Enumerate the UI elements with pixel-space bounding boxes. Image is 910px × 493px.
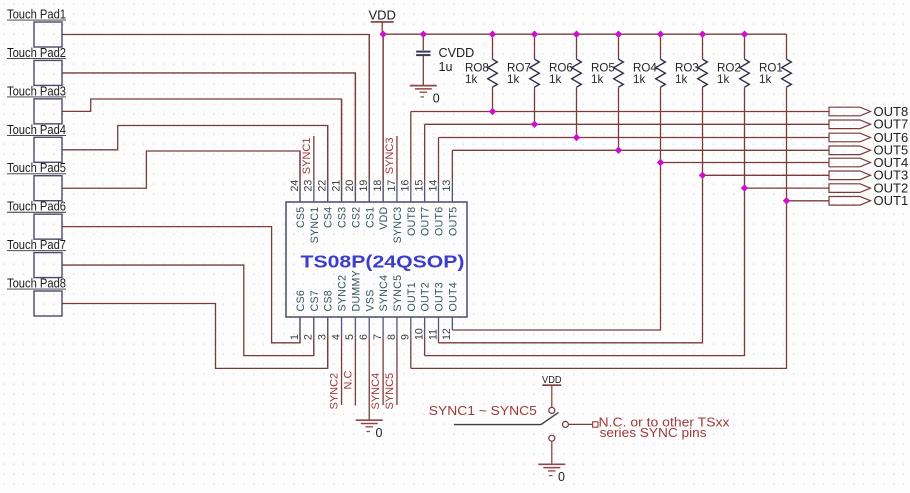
svg-text:Touch Pad5: Touch Pad5	[7, 161, 66, 175]
svg-text:series SYNC pins: series SYNC pins	[600, 426, 707, 440]
power symbol VDD (switch)	[542, 375, 562, 407]
wire OUT8 from pin16	[411, 111, 829, 113]
pin 10 OUT2	[413, 282, 431, 356]
node N.C. square terminal	[593, 422, 598, 427]
svg-text:1: 1	[289, 334, 301, 340]
touch pad TP6	[7, 200, 66, 240]
ground below CVDD	[410, 86, 440, 106]
svg-text:OUT1: OUT1	[406, 282, 418, 311]
wire OUT2 run from pin10	[425, 188, 745, 356]
svg-text:20: 20	[344, 180, 356, 192]
power symbol VDD	[368, 8, 395, 35]
pin 17 SYNC3	[386, 136, 404, 243]
junction RO8/OUT8	[489, 108, 496, 115]
svg-text:4: 4	[330, 334, 342, 340]
svg-text:SYNC3: SYNC3	[392, 207, 404, 244]
pin 5 DUMMY	[344, 270, 362, 406]
wire pad6 to CS6 pin1	[62, 227, 300, 343]
pin 7 SYNC4	[372, 275, 390, 405]
svg-text:VDD: VDD	[378, 206, 390, 229]
svg-text:0: 0	[558, 470, 565, 484]
svg-text:SYNC1 ~ SYNC5: SYNC1 ~ SYNC5	[429, 403, 537, 418]
svg-text:DUMMY: DUMMY	[350, 270, 362, 312]
svg-text:16: 16	[400, 180, 412, 192]
svg-text:SYNC5: SYNC5	[384, 373, 396, 410]
wire OUT4 run from pin12	[452, 163, 660, 331]
junction CVDD tap	[420, 31, 427, 38]
svg-text:OUT7: OUT7	[420, 207, 432, 236]
svg-text:SYNC4: SYNC4	[378, 275, 390, 312]
touch pad TP1	[7, 8, 66, 48]
junction RO1/OUT1	[783, 197, 790, 204]
wire OUT5 from pin13	[452, 149, 829, 151]
svg-text:0: 0	[375, 426, 382, 440]
port OUT8	[829, 104, 908, 119]
svg-text:1k: 1k	[675, 73, 687, 86]
ground below switch	[538, 464, 565, 484]
resistor RO4 1k	[633, 34, 665, 162]
junction VDD/pin18	[379, 31, 386, 38]
wire switch to ground	[551, 441, 553, 464]
touch pad TP5	[7, 161, 66, 201]
svg-text:Touch Pad7: Touch Pad7	[7, 238, 66, 252]
svg-text:1k: 1k	[549, 73, 561, 86]
svg-text:14: 14	[427, 180, 439, 192]
svg-text:0: 0	[433, 91, 440, 105]
wire pad4 to CS4 pin22	[62, 126, 328, 203]
svg-text:TS08P(24QSOP): TS08P(24QSOP)	[301, 252, 465, 272]
resistor RO1 1k	[759, 34, 791, 201]
svg-text:CS3: CS3	[337, 207, 349, 229]
svg-text:13: 13	[441, 180, 453, 192]
svg-text:1k: 1k	[591, 73, 603, 86]
touch pad TP7	[7, 238, 66, 278]
wire OUT1 run from pin9	[411, 201, 787, 369]
junction rail/RO7	[531, 31, 538, 38]
svg-text:OUT8: OUT8	[406, 207, 418, 236]
touch pad TP3	[7, 84, 66, 124]
pin 23 SYNC1	[303, 136, 321, 243]
op-amp U1 TS08P(24QSOP) IC body	[286, 202, 467, 317]
port OUT4	[829, 155, 908, 170]
junction RO2/OUT2	[741, 184, 748, 191]
svg-text:12: 12	[441, 328, 453, 340]
pin 16 OUT8	[400, 112, 418, 236]
svg-text:OUT3: OUT3	[434, 282, 446, 311]
wire VDD pin18 drop	[382, 34, 384, 202]
touch pad TP4	[7, 123, 66, 163]
pin 13 OUT5	[441, 150, 459, 236]
touch pad TP2	[7, 46, 66, 86]
svg-text:CS6: CS6	[295, 290, 307, 312]
junction RO5/OUT5	[615, 147, 622, 154]
svg-text:OUT2: OUT2	[420, 282, 432, 311]
wire pad3 to CS3 pin21	[62, 99, 342, 202]
resistor RO7 1k	[507, 34, 539, 124]
svg-text:SYNC2: SYNC2	[337, 275, 349, 312]
junction rail/RO5	[615, 31, 622, 38]
svg-text:SYNC4: SYNC4	[370, 373, 382, 410]
pin 22 CS4	[317, 126, 335, 229]
port OUT2	[829, 181, 908, 196]
wire pad8 to CS8 pin3	[62, 304, 328, 369]
svg-text:SYNC1: SYNC1	[309, 207, 321, 244]
svg-text:21: 21	[330, 180, 342, 192]
wire pad7 to CS7 pin2	[62, 265, 314, 356]
svg-text:15: 15	[413, 180, 425, 192]
junction RO4/OUT4	[657, 159, 664, 166]
pin 14 OUT6	[427, 138, 445, 236]
svg-text:CS7: CS7	[309, 290, 321, 312]
svg-text:7: 7	[372, 334, 384, 340]
pin 6 VSS	[358, 289, 376, 420]
svg-text:Touch Pad6: Touch Pad6	[7, 200, 66, 214]
svg-text:18: 18	[372, 180, 384, 192]
svg-text:1k: 1k	[633, 73, 645, 86]
pin 19 CS1	[358, 34, 376, 228]
svg-text:SYNC2: SYNC2	[329, 373, 341, 410]
svg-text:23: 23	[303, 180, 315, 192]
pin 18 VDD	[372, 34, 390, 230]
pin 2 CS7	[303, 290, 321, 356]
svg-text:VSS: VSS	[364, 289, 376, 311]
svg-text:CS5: CS5	[295, 207, 307, 229]
wire pad2 to CS2 pin20	[62, 73, 355, 202]
svg-text:SYNC1: SYNC1	[301, 138, 313, 175]
port OUT3	[829, 168, 908, 183]
svg-text:CS2: CS2	[350, 207, 362, 229]
pin 15 OUT7	[413, 124, 431, 236]
svg-text:N.C: N.C	[342, 371, 354, 390]
wire pad5 to CS5 pin24	[62, 151, 300, 202]
svg-text:1u: 1u	[439, 60, 453, 74]
svg-text:1k: 1k	[465, 73, 477, 86]
resistor RO6 1k	[549, 34, 581, 137]
ground below VSS pin6	[356, 420, 383, 440]
wire OUT3 run from pin11	[439, 175, 703, 342]
resistor RO5 1k	[591, 34, 623, 150]
svg-text:19: 19	[358, 180, 370, 192]
touch pad TP8	[7, 277, 66, 317]
svg-text:5: 5	[344, 334, 356, 340]
svg-text:6: 6	[358, 334, 370, 340]
switch SW1	[454, 407, 568, 441]
wire OUT7 from pin15	[425, 123, 829, 125]
port OUT5	[829, 143, 908, 158]
junction RO6/OUT6	[573, 134, 580, 141]
junction RO7/OUT7	[531, 121, 538, 128]
svg-text:3: 3	[317, 334, 329, 340]
pin 20 CS2	[344, 73, 362, 228]
pin 24 CS5	[289, 151, 307, 228]
wire VDD rail	[383, 33, 786, 35]
pin 21 CS3	[330, 99, 348, 228]
pin 3 CS8	[317, 290, 335, 368]
svg-text:VDD: VDD	[368, 8, 395, 23]
svg-text:CVDD: CVDD	[439, 46, 475, 60]
capacitor CVDD 1u	[416, 34, 474, 85]
pin 4 SYNC2	[330, 275, 348, 405]
svg-text:17: 17	[386, 180, 398, 192]
junction RO3/OUT3	[699, 172, 706, 179]
svg-text:22: 22	[317, 180, 329, 192]
port OUT1	[829, 193, 908, 208]
wire switch to N.C. note	[568, 423, 592, 425]
junction rail/RO8	[489, 31, 496, 38]
svg-text:Touch Pad3: Touch Pad3	[7, 84, 66, 98]
svg-text:CS4: CS4	[323, 207, 335, 229]
svg-text:1k: 1k	[507, 73, 519, 86]
svg-text:1k: 1k	[717, 73, 729, 86]
wire pad1 to CS1 pin19	[62, 35, 369, 203]
pin 12 OUT4	[441, 282, 459, 340]
note N.C. or to other TSxx series SYNC pins	[599, 416, 731, 441]
svg-text:9: 9	[400, 334, 412, 340]
svg-text:OUT5: OUT5	[447, 207, 459, 236]
pin 1 CS6	[289, 290, 307, 343]
resistor RO3 1k	[675, 34, 707, 175]
junction rail/RO6	[573, 31, 580, 38]
svg-text:8: 8	[386, 334, 398, 340]
svg-text:CS8: CS8	[323, 290, 335, 312]
junction rail/RO3	[699, 31, 706, 38]
resistor RO2 1k	[717, 34, 749, 188]
port OUT6	[829, 130, 908, 145]
svg-text:Touch Pad4: Touch Pad4	[7, 123, 66, 137]
svg-text:OUT6: OUT6	[434, 207, 446, 236]
svg-text:Touch Pad2: Touch Pad2	[7, 46, 66, 60]
svg-text:Touch Pad1: Touch Pad1	[7, 8, 66, 22]
svg-text:SYNC3: SYNC3	[384, 138, 396, 175]
svg-text:24: 24	[289, 180, 301, 192]
wire OUT6 from pin14	[439, 137, 830, 139]
svg-text:OUT4: OUT4	[447, 282, 459, 311]
pin 11 OUT3	[427, 282, 445, 343]
svg-text:SYNC5: SYNC5	[392, 275, 404, 312]
svg-text:OUT1: OUT1	[874, 193, 909, 208]
svg-text:2: 2	[303, 334, 315, 340]
svg-text:11: 11	[427, 329, 439, 340]
resistor RO8 1k	[465, 34, 497, 111]
junction rail/RO2	[741, 31, 748, 38]
svg-text:1k: 1k	[759, 73, 771, 86]
pin 8 SYNC5	[386, 275, 404, 405]
svg-text:CS1: CS1	[364, 207, 376, 229]
junction rail/RO4	[657, 31, 664, 38]
svg-text:Touch Pad8: Touch Pad8	[7, 277, 66, 291]
port OUT7	[829, 117, 908, 132]
svg-text:VDD: VDD	[542, 375, 562, 386]
pin 9 OUT1	[400, 282, 418, 368]
svg-text:10: 10	[413, 328, 425, 340]
